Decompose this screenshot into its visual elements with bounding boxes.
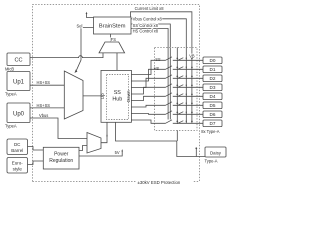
svg-text:style: style [13, 166, 23, 171]
connector Daisy [205, 147, 226, 157]
svg-text:HS+SS: HS+SS [37, 103, 51, 108]
svg-text:D6: D6 [210, 112, 216, 117]
wire Up0 HS+SS to signal mux [30, 107, 64, 109]
svg-text:D2: D2 [210, 76, 216, 81]
svg-text:±30kV ESD Protection: ±30kV ESD Protection [138, 180, 181, 185]
connector CC (Micro-B) [7, 53, 30, 66]
svg-text:Up1: Up1 [13, 80, 25, 86]
svg-text:Sel: Sel [77, 23, 83, 28]
svg-text:D5: D5 [210, 103, 216, 108]
svg-text:8x Type-A: 8x Type-A [201, 129, 220, 134]
svg-text:D4: D4 [210, 94, 216, 99]
power mux (trapezoid) [87, 133, 101, 154]
svg-text:D1: D1 [210, 67, 216, 72]
connector Up1 Type-A [7, 72, 30, 91]
SS Hub inner dashed region [107, 75, 129, 120]
wire control Vbus Control x8 [131, 19, 186, 124]
svg-text:HS+SS: HS+SS [37, 80, 51, 85]
SS Hub box [101, 70, 131, 122]
switch bank dashed box [155, 48, 198, 131]
svg-text:MicB: MicB [5, 66, 14, 71]
wire control HS Control x8 [131, 29, 168, 120]
svg-text:Regulation: Regulation [49, 158, 73, 164]
connector Euro-style [7, 158, 28, 174]
ESD protection dashed boundary [33, 5, 200, 182]
connector D3 [203, 84, 222, 91]
svg-text:TypeA: TypeA [5, 91, 17, 96]
svg-text:Barrel: Barrel [11, 148, 23, 153]
switch row D2 [166, 75, 204, 79]
Power Regulation box [43, 147, 79, 169]
svg-text:Current Limit x8: Current Limit x8 [135, 6, 165, 11]
svg-text:Hub: Hub [112, 97, 122, 103]
svg-text:BrainStem: BrainStem [99, 24, 126, 30]
hub output staircase wires [131, 60, 165, 74]
wire Up1 HS+SS to signal mux [30, 84, 64, 86]
wire control Current Limit x8 [131, 12, 192, 124]
svg-text:Vbus: Vbus [39, 113, 48, 118]
arrow indicator above BrainStem [87, 14, 94, 18]
junction dot near Daisy [195, 147, 197, 149]
svg-text:DC: DC [14, 142, 21, 147]
svg-text:D3: D3 [210, 85, 216, 90]
wire CC to FS mux (with hop over Sel) [30, 53, 103, 58]
wire Up0 Vbus to power mux [30, 118, 87, 139]
svg-text:SS: SS [114, 90, 122, 96]
wire Daisy chain from hub [116, 122, 206, 156]
svg-text:TypeA: TypeA [5, 123, 17, 128]
switch row D0 [166, 57, 204, 61]
connector D1 [203, 66, 222, 73]
svg-text:D0: D0 [210, 58, 216, 63]
svg-text:5V: 5V [115, 150, 120, 155]
switch row D1 [166, 66, 204, 70]
connector D5 [203, 102, 222, 109]
svg-text:SS: SS [155, 57, 161, 62]
FS mux (trapezoid) [99, 42, 125, 53]
connector D4 [203, 93, 222, 100]
svg-text:Vbus Control x8: Vbus Control x8 [133, 17, 163, 22]
svg-text:Type-A: Type-A [205, 158, 218, 163]
svg-text:D7: D7 [210, 121, 216, 126]
svg-text:HS Control x8: HS Control x8 [133, 29, 159, 34]
switch row D7 [166, 120, 204, 124]
switch row D5 [166, 102, 204, 106]
svg-text:Up: Up [100, 93, 105, 99]
wire FS mux to SS Hub top [116, 53, 118, 71]
switch row D6 [166, 111, 204, 115]
wire Euro-style to Power Regulation [28, 161, 44, 165]
connector D7 [203, 120, 222, 127]
wire power mux output to SS Hub (5V) [101, 122, 107, 142]
svg-text:SS Control x8: SS Control x8 [133, 23, 159, 28]
svg-text:Daisy: Daisy [210, 150, 222, 155]
connector D6 [203, 111, 222, 118]
wire Sel from BrainStem to signal mux [76, 28, 94, 72]
Vbus power rail into switch bank [176, 48, 178, 142]
wire 5V from Power Regulation [79, 151, 122, 156]
connector Up0 Type-A [7, 103, 30, 123]
wire control SS Control x8 [131, 24, 170, 120]
signal mux (upstream select trapezoid) [64, 71, 83, 119]
svg-text:Up0: Up0 [13, 112, 25, 118]
wire signal mux output to SS Hub Up port [83, 95, 101, 97]
switch row D4 [166, 93, 204, 97]
svg-text:HS: HS [154, 66, 160, 71]
svg-text:Power: Power [54, 151, 69, 157]
svg-text:FS: FS [111, 37, 117, 42]
svg-text:Down: Down [126, 90, 131, 102]
wire Power Regulation to power mux [79, 146, 87, 151]
connector DC Barrel [7, 139, 28, 155]
svg-text:CC: CC [14, 57, 22, 63]
wire BrainStem FS to FS mux [110, 34, 112, 42]
connector D2 [203, 75, 222, 82]
BrainStem box [94, 17, 132, 34]
switch row D3 [166, 84, 204, 88]
wire DC Barrel to Power Regulation [28, 147, 44, 151]
svg-text:Euro-: Euro- [12, 160, 24, 165]
connector D0 [203, 57, 222, 64]
